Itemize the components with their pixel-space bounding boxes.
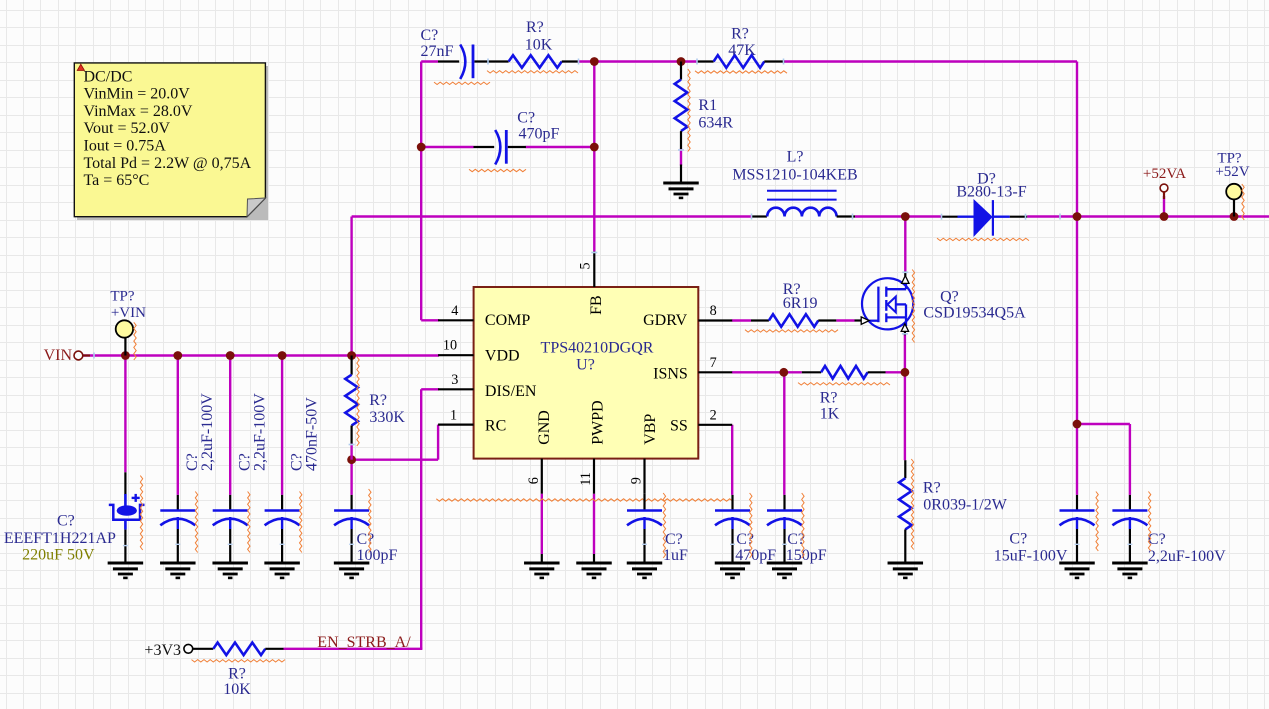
ground below GND pin bbox=[524, 554, 560, 578]
wire: output caps riser bbox=[1076, 217, 1078, 425]
svg-text:1K: 1K bbox=[820, 405, 840, 422]
svg-text:100pF: 100pF bbox=[357, 547, 398, 564]
svg-text:GDRV: GDRV bbox=[643, 312, 688, 329]
note: DC/DC design parameters bbox=[74, 63, 268, 220]
svg-text:R?: R? bbox=[923, 480, 941, 497]
wire: FB node ladder left vertical bbox=[420, 62, 422, 321]
svg-text:10K: 10K bbox=[525, 37, 553, 54]
svg-text:6R19: 6R19 bbox=[783, 295, 818, 312]
ground below C3 bbox=[108, 562, 143, 565]
ground below R6 bbox=[888, 562, 924, 565]
power port VIN bbox=[44, 347, 90, 364]
svg-text:7: 7 bbox=[710, 355, 717, 371]
svg-text:B280-13-F: B280-13-F bbox=[956, 183, 1026, 200]
op-amp/controller U1 TPS40210DGQR body bbox=[474, 287, 699, 459]
svg-text:470pF: 470pF bbox=[735, 547, 776, 564]
wire: R1 634R to ground bbox=[680, 149, 682, 166]
svg-text:6: 6 bbox=[526, 477, 542, 484]
U1 pin 6 GND (bottom) bbox=[526, 410, 553, 494]
resistor R7 330K bbox=[345, 356, 405, 460]
wire: VIN bus bbox=[83, 354, 439, 356]
resistor R8 10K enable bbox=[192, 643, 286, 699]
U1 pin 10 VDD bbox=[438, 338, 519, 365]
svg-text:EEEFT1H221AP: EEEFT1H221AP bbox=[4, 530, 116, 547]
inductor L1 MSS1210-104KEB bbox=[732, 149, 857, 217]
svg-text:4: 4 bbox=[451, 303, 458, 319]
capacitor C3 EEEFT1H221AP 220uF 50V (polarized) bbox=[4, 472, 145, 563]
svg-text:27nF: 27nF bbox=[421, 43, 454, 60]
resistor R6 0R039-1/2W bbox=[899, 459, 1008, 563]
svg-text:47K: 47K bbox=[728, 42, 756, 59]
U1 pin 11 PWPD (bottom) bbox=[578, 400, 607, 493]
resistor R2 10K top bbox=[487, 19, 578, 73]
svg-text:10: 10 bbox=[443, 338, 457, 354]
svg-text:470nF-50V: 470nF-50V bbox=[304, 397, 321, 471]
svg-text:COMP: COMP bbox=[485, 312, 530, 329]
svg-text:R?: R? bbox=[820, 390, 838, 407]
wire: C470pF row left bbox=[421, 146, 473, 148]
wire: C100pF drop bbox=[350, 460, 352, 495]
capacitor C6 470nF-50V bbox=[264, 397, 320, 578]
svg-text:DIS/EN: DIS/EN bbox=[485, 383, 537, 400]
capacitor C4 2,2uF-100V bbox=[160, 393, 216, 578]
wire: FB vertical to pin 5 bbox=[593, 62, 595, 252]
transistor Q1 CSD19534Q5A bbox=[855, 270, 1027, 343]
wire: MOSFET source drop bbox=[904, 335, 906, 461]
wire: DIS/EN pin stub bbox=[421, 388, 439, 390]
svg-text:R?: R? bbox=[369, 392, 387, 409]
U1 pin 9 VBP (bottom) bbox=[629, 414, 660, 494]
U1 pin 7 ISNS bbox=[653, 355, 732, 382]
wire: C3 drop bbox=[229, 356, 231, 495]
U1 pin 3 DIS/EN bbox=[438, 372, 537, 400]
svg-text:MSS1210-104KEB: MSS1210-104KEB bbox=[732, 167, 857, 184]
resistor R1 634R bbox=[675, 62, 734, 152]
wire: RC row bbox=[352, 459, 439, 461]
svg-text:+VIN: +VIN bbox=[111, 305, 146, 321]
wire: GDRV to gate resistor bbox=[732, 319, 751, 321]
test point TP1 +VIN bbox=[110, 289, 146, 360]
wire: diode to output right edge bbox=[1027, 215, 1269, 217]
wire: C15uF drop bbox=[1076, 424, 1078, 495]
capacitor C1 27nF bbox=[421, 27, 509, 85]
wire: ISNS to junction bbox=[732, 371, 784, 373]
wire: C4 drop bbox=[281, 356, 283, 495]
wire: gate resistor to MOSFET bbox=[836, 319, 854, 321]
svg-text:+52VA: +52VA bbox=[1143, 166, 1186, 182]
wire: inductor to diode bbox=[855, 215, 941, 217]
resistor R5 1K bbox=[798, 366, 890, 422]
wire: COMP pin connection bbox=[421, 319, 439, 321]
svg-text:VBP: VBP bbox=[642, 414, 659, 445]
svg-text:C?: C? bbox=[1009, 530, 1027, 547]
power port +52VA bbox=[1143, 166, 1186, 199]
svg-text:0R039-1/2W: 0R039-1/2W bbox=[923, 496, 1007, 513]
svg-text:CSD19534Q5A: CSD19534Q5A bbox=[923, 304, 1026, 321]
svg-text:10K: 10K bbox=[223, 681, 251, 698]
svg-text:Total Pd = 2.2W @ 0,75A: Total Pd = 2.2W @ 0,75A bbox=[84, 155, 252, 172]
svg-text:15uF-100V: 15uF-100V bbox=[994, 548, 1068, 565]
wire: C2 drop bbox=[177, 356, 179, 495]
capacitor C10 150pF bbox=[767, 493, 827, 578]
svg-text:TP?: TP? bbox=[110, 289, 135, 305]
capacitor C7 100pF bbox=[334, 489, 398, 578]
test point TP2 +52V bbox=[1215, 151, 1249, 221]
svg-text:C?: C? bbox=[665, 531, 683, 548]
capacitor C11 15uF-100V bbox=[994, 492, 1099, 578]
wire: R47K to output corner bbox=[784, 60, 1077, 62]
svg-text:R?: R? bbox=[228, 666, 246, 683]
resistor R3 47K bbox=[695, 26, 787, 74]
svg-text:C?: C? bbox=[421, 27, 439, 44]
svg-text:Vout = 52.0V: Vout = 52.0V bbox=[84, 120, 171, 137]
svg-text:EN_STRB_A/: EN_STRB_A/ bbox=[317, 634, 411, 651]
capacitor C9 470pF bbox=[715, 493, 776, 578]
svg-text:TPS40210DGQR: TPS40210DGQR bbox=[541, 339, 654, 356]
power port +3V3 bbox=[144, 642, 192, 659]
svg-text:VinMax = 28.0V: VinMax = 28.0V bbox=[84, 103, 193, 120]
svg-text:2,2uF-100V: 2,2uF-100V bbox=[199, 393, 216, 471]
svg-text:8: 8 bbox=[710, 303, 717, 319]
wire: RC riser to pin 1 bbox=[437, 425, 439, 460]
wire: switch node vertical to VIN row bbox=[350, 217, 352, 356]
wire: switch node VIN to inductor bbox=[352, 215, 752, 217]
svg-text:VinMin = 20.0V: VinMin = 20.0V bbox=[84, 86, 191, 103]
svg-text:470pF: 470pF bbox=[519, 126, 560, 143]
svg-text:RC: RC bbox=[485, 417, 506, 434]
U1 pin 2 SS bbox=[670, 408, 732, 435]
svg-text:11: 11 bbox=[578, 472, 594, 486]
svg-text:330K: 330K bbox=[369, 409, 405, 426]
svg-text:3: 3 bbox=[451, 372, 458, 388]
wire: ISNS junction to R1K bbox=[784, 371, 802, 373]
wire: SS pin drop to C470pF bbox=[731, 425, 733, 495]
U1 pin 5 FB (top) bbox=[578, 251, 605, 315]
svg-text:+3V3: +3V3 bbox=[144, 642, 181, 659]
svg-text:1uF: 1uF bbox=[663, 547, 688, 564]
svg-text:ISNS: ISNS bbox=[653, 365, 688, 382]
svg-text:GND: GND bbox=[536, 410, 553, 445]
wire: C electrolytic drop bbox=[124, 356, 126, 473]
svg-text:5: 5 bbox=[578, 262, 594, 269]
compile-mark under U1 bottom pins bbox=[436, 499, 733, 501]
svg-text:U?: U? bbox=[576, 357, 595, 374]
ground below PWPD pin bbox=[576, 554, 612, 578]
svg-text:2,2uF-100V: 2,2uF-100V bbox=[1148, 548, 1226, 565]
wire: R10K to R47K along FB row bbox=[578, 60, 697, 62]
wire: R1K to source node bbox=[886, 371, 905, 373]
wire: feedback top right vertical bbox=[1076, 62, 1078, 217]
svg-text:634R: 634R bbox=[698, 115, 733, 132]
wire: output caps branch bbox=[1077, 423, 1130, 425]
svg-text:Q?: Q? bbox=[940, 289, 959, 306]
diode D1 B280-13-F bbox=[937, 171, 1029, 241]
U1 pin 4 COMP bbox=[438, 303, 530, 329]
resistor R4 6R19 gate bbox=[745, 281, 838, 332]
wire: C470pF row right bbox=[526, 146, 595, 148]
svg-text:R?: R? bbox=[731, 26, 749, 43]
svg-text:PWPD: PWPD bbox=[590, 400, 607, 444]
svg-text:C?: C? bbox=[57, 512, 75, 529]
wire: DIS/EN vertical to EN net bbox=[420, 389, 422, 649]
svg-text:VIN: VIN bbox=[44, 347, 73, 364]
capacitor C8 1uF bbox=[627, 493, 688, 578]
svg-text:220uF 50V: 220uF 50V bbox=[22, 546, 95, 563]
svg-text:2: 2 bbox=[710, 408, 717, 424]
capacitor C5 2,2uF-100V bbox=[212, 393, 268, 578]
ground below R1 bbox=[663, 165, 699, 198]
svg-text:1: 1 bbox=[450, 407, 457, 423]
svg-text:Ta = 65°C: Ta = 65°C bbox=[84, 172, 150, 189]
wire: top row to C27nF bbox=[421, 60, 438, 62]
wire: PWPD pin drop bbox=[593, 494, 595, 554]
wire: C2.2uF drop bbox=[1129, 424, 1131, 495]
svg-text:C?: C? bbox=[517, 110, 535, 127]
svg-text:150pF: 150pF bbox=[786, 547, 827, 564]
capacitor C2 470pF bbox=[469, 110, 560, 172]
wire: +52VA stub bbox=[1163, 196, 1165, 217]
U1 pin 8 GDRV bbox=[643, 303, 732, 329]
capacitor C12 2,2uF-100V bbox=[1112, 492, 1226, 578]
svg-text:SS: SS bbox=[670, 417, 688, 434]
wire: MOSFET drain riser bbox=[904, 217, 906, 272]
U1 pin 1 RC bbox=[438, 407, 506, 434]
wire: EN_STRB_A/ run bbox=[284, 648, 423, 650]
svg-text:C?: C? bbox=[357, 531, 375, 548]
pale blue pin-end tick marks bbox=[94, 59, 1060, 445]
svg-text:+52V: +52V bbox=[1215, 164, 1249, 180]
svg-text:9: 9 bbox=[629, 477, 645, 484]
svg-text:2,2uF-100V: 2,2uF-100V bbox=[252, 393, 269, 471]
wire: C150pF drop bbox=[783, 372, 785, 495]
svg-text:L?: L? bbox=[787, 149, 804, 166]
svg-text:R?: R? bbox=[526, 19, 544, 36]
svg-text:DC/DC: DC/DC bbox=[84, 68, 133, 85]
svg-text:Iout = 0.75A: Iout = 0.75A bbox=[84, 138, 167, 155]
svg-text:VDD: VDD bbox=[485, 348, 520, 365]
svg-text:R1: R1 bbox=[698, 97, 717, 114]
wire: GND pin drop bbox=[541, 494, 543, 554]
svg-text:FB: FB bbox=[588, 295, 605, 315]
